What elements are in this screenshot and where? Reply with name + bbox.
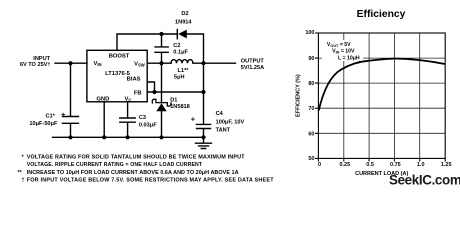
svg-text:0.5: 0.5 [366, 162, 374, 168]
svg-text:FB: FB [134, 90, 142, 96]
svg-text:1N914: 1N914 [175, 19, 192, 25]
svg-text:90: 90 [308, 56, 314, 62]
svg-text:OUTPUT: OUTPUT [241, 58, 265, 64]
svg-text:100: 100 [305, 30, 314, 36]
svg-text:TANT: TANT [216, 127, 231, 133]
svg-text:70: 70 [308, 106, 314, 112]
svg-text:VIN: VIN [94, 61, 102, 67]
svg-text:C3: C3 [139, 115, 146, 121]
svg-text:Efficiency: Efficiency [357, 9, 406, 20]
svg-text:C2: C2 [173, 43, 180, 49]
svg-text:C4: C4 [216, 111, 224, 117]
svg-text:FOR INPUT VOLTAGE BELOW 7.5V.: FOR INPUT VOLTAGE BELOW 7.5V. SOME RESTR… [27, 178, 275, 184]
svg-text:BOOST: BOOST [109, 54, 130, 60]
svg-text:100μF, 10V: 100μF, 10V [216, 119, 245, 125]
svg-text:*: * [22, 155, 25, 161]
svg-text:EFFICIENCY (%): EFFICIENCY (%) [296, 74, 302, 117]
svg-text:GND: GND [96, 96, 109, 102]
svg-text:+: + [191, 115, 196, 124]
svg-text:L1**: L1** [178, 68, 190, 74]
svg-text:VOLTAGE RATING FOR SOLID TANTA: VOLTAGE RATING FOR SOLID TANTALUM SHOULD… [27, 155, 246, 161]
svg-text:D1: D1 [170, 98, 177, 104]
svg-text:†: † [22, 178, 25, 184]
svg-text:80: 80 [308, 81, 314, 87]
svg-text:C1*: C1* [45, 113, 55, 119]
svg-text:0: 0 [318, 162, 321, 168]
svg-text:1.0: 1.0 [417, 162, 425, 168]
svg-text:5μH: 5μH [174, 75, 185, 81]
svg-text:0.75: 0.75 [390, 162, 401, 168]
svg-text:VSW: VSW [134, 61, 145, 67]
svg-text:SeekIC.com: SeekIC.com [389, 172, 460, 187]
svg-text:5V/1.25A: 5V/1.25A [241, 65, 264, 71]
svg-text:0.03μF: 0.03μF [139, 122, 157, 128]
svg-text:BIAS: BIAS [127, 76, 141, 82]
svg-text:VC: VC [125, 96, 132, 102]
svg-text:1N5818: 1N5818 [170, 104, 190, 110]
svg-text:10μF-50μF: 10μF-50μF [29, 121, 58, 127]
svg-text:**: ** [18, 170, 23, 176]
svg-text:L = 10μH: L = 10μH [338, 56, 360, 62]
svg-text:VOLTAGE. RIPPLE CURRENT RATING: VOLTAGE. RIPPLE CURRENT RATING = ONE HAL… [27, 162, 203, 168]
svg-text:60: 60 [308, 131, 314, 137]
svg-text:0.25: 0.25 [339, 162, 350, 168]
svg-text:50: 50 [308, 156, 314, 162]
svg-text:1.25: 1.25 [441, 162, 452, 168]
svg-text:INCREASE TO 10μH FOR LOAD CURR: INCREASE TO 10μH FOR LOAD CURRENT ABOVE … [27, 170, 239, 176]
svg-text:0.1μF: 0.1μF [173, 49, 188, 55]
svg-text:6V TO 25V†: 6V TO 25V† [20, 62, 51, 68]
svg-text:D2: D2 [181, 11, 188, 17]
svg-text:+: + [61, 110, 66, 119]
svg-text:VIN = 10V: VIN = 10V [332, 49, 355, 55]
